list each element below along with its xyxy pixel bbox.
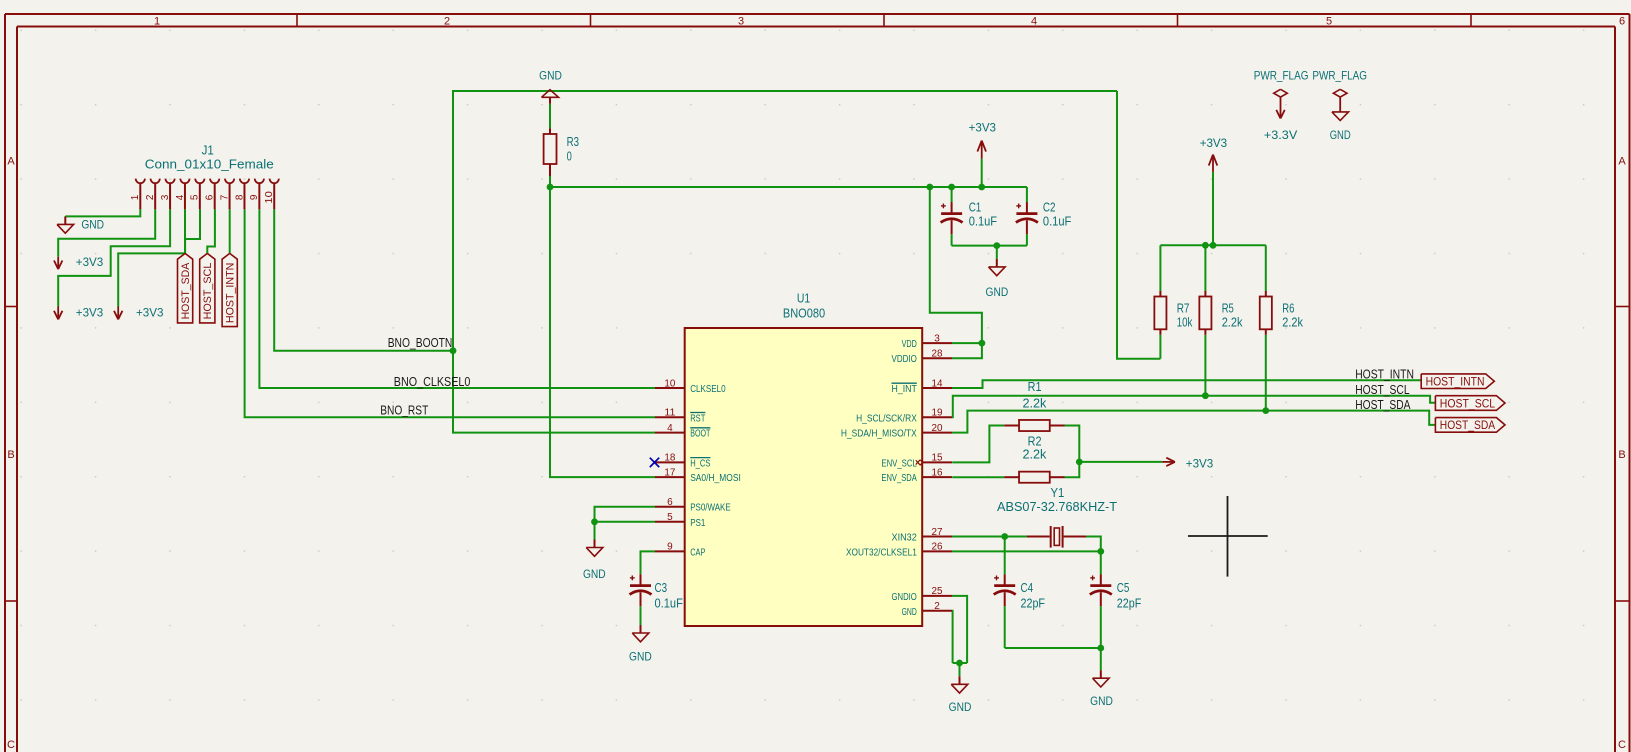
svg-text:19: 19 [932,408,943,419]
svg-text:+3V3: +3V3 [136,306,164,320]
svg-text:XIN32: XIN32 [892,533,918,544]
svg-text:GND: GND [583,567,606,581]
svg-text:HOST_SCL: HOST_SCL [202,263,214,320]
svg-text:R6: R6 [1282,300,1294,315]
svg-text:+3V3: +3V3 [969,121,997,135]
svg-text:GND: GND [986,285,1009,299]
svg-text:CLKSEL0: CLKSEL0 [690,384,726,395]
svg-text:BNO_RST: BNO_RST [380,404,428,418]
svg-text:+3.3V: +3.3V [1264,128,1297,142]
svg-text:10k: 10k [1177,314,1193,329]
svg-text:H_INT: H_INT [892,384,917,395]
svg-text:B: B [7,449,14,461]
svg-text:C3: C3 [655,580,668,595]
svg-text:BOOT: BOOT [690,429,710,440]
svg-text:C: C [7,739,15,751]
svg-text:GND: GND [1090,694,1113,708]
svg-text:0.1uF: 0.1uF [655,596,683,611]
svg-text:R1: R1 [1028,379,1042,394]
svg-text:1: 1 [130,194,141,200]
svg-text:3: 3 [738,15,744,27]
svg-text:2.2k: 2.2k [1222,314,1243,329]
svg-text:16: 16 [932,467,943,478]
svg-text:8: 8 [234,194,245,200]
svg-text:XOUT32/CLKSEL1: XOUT32/CLKSEL1 [846,547,917,558]
svg-text:9: 9 [249,194,260,200]
svg-text:GNDIO: GNDIO [892,592,917,603]
svg-text:R3: R3 [567,134,579,149]
svg-text:H_SCL/SCK/RX: H_SCL/SCK/RX [856,413,917,424]
svg-text:10: 10 [664,378,675,389]
svg-text:HOST_SDA: HOST_SDA [1440,418,1495,432]
svg-text:BNO080: BNO080 [783,307,825,321]
svg-text:J1: J1 [202,144,214,158]
svg-text:+3V3: +3V3 [1200,136,1228,150]
svg-text:H_SDA/H_MISO/TX: H_SDA/H_MISO/TX [841,429,917,440]
svg-text:2: 2 [934,601,940,612]
svg-text:H_CS: H_CS [690,458,710,469]
svg-text:HOST_INTN: HOST_INTN [225,263,237,323]
svg-text:Y1: Y1 [1051,485,1065,500]
svg-text:10: 10 [264,191,275,204]
svg-text:A: A [1618,155,1626,167]
svg-text:ABS07-32.768KHZ-T: ABS07-32.768KHZ-T [997,500,1117,514]
svg-text:6: 6 [205,194,216,200]
svg-text:B: B [1618,449,1625,461]
svg-text:PS0/WAKE: PS0/WAKE [690,503,731,514]
svg-text:HOST_SDA: HOST_SDA [1355,398,1411,412]
svg-text:25: 25 [932,586,943,597]
svg-text:C1: C1 [969,199,982,214]
svg-text:6: 6 [1619,15,1625,27]
svg-text:18: 18 [664,453,675,464]
svg-text:0: 0 [567,148,572,163]
svg-text:2: 2 [444,15,450,27]
svg-text:6: 6 [667,497,673,508]
svg-text:1: 1 [154,15,160,27]
svg-text:HOST_INTN: HOST_INTN [1426,375,1485,389]
svg-text:22pF: 22pF [1021,596,1046,611]
svg-text:C4: C4 [1021,580,1034,595]
svg-text:15: 15 [932,453,943,464]
svg-text:SA0/H_MOSI: SA0/H_MOSI [690,473,741,484]
svg-text:ENV_SCL: ENV_SCL [881,458,917,469]
svg-text:RST: RST [690,413,705,424]
svg-text:HOST_SDA: HOST_SDA [180,262,192,319]
svg-text:4: 4 [1031,15,1037,27]
svg-text:PWR_FLAG: PWR_FLAG [1312,69,1367,83]
svg-text:VDD: VDD [902,339,917,350]
svg-text:4: 4 [175,194,186,200]
svg-text:0.1uF: 0.1uF [1043,214,1071,229]
svg-text:3: 3 [160,194,171,200]
svg-text:11: 11 [664,408,675,419]
svg-text:GND: GND [902,607,917,618]
svg-text:HOST_SCL: HOST_SCL [1355,383,1409,397]
svg-text:5: 5 [667,512,673,523]
svg-text:HOST_INTN: HOST_INTN [1355,368,1414,382]
svg-text:14: 14 [932,378,943,389]
svg-text:U1: U1 [797,292,810,306]
svg-text:26: 26 [932,542,943,553]
svg-text:PS1: PS1 [690,518,706,529]
svg-text:2.2k: 2.2k [1282,314,1303,329]
svg-text:9: 9 [667,542,673,553]
svg-text:BNO_CLKSEL0: BNO_CLKSEL0 [394,375,471,389]
svg-text:GND: GND [81,218,104,232]
svg-text:5: 5 [190,194,201,200]
svg-text:GND: GND [539,69,562,83]
svg-text:2: 2 [145,194,156,200]
svg-text:A: A [7,155,15,167]
svg-text:0.1uF: 0.1uF [969,214,997,229]
svg-text:4: 4 [667,423,673,434]
svg-text:3: 3 [934,333,940,344]
svg-text:VDDIO: VDDIO [892,354,917,365]
svg-text:+3V3: +3V3 [76,255,104,269]
svg-text:+3V3: +3V3 [76,306,104,320]
svg-text:R5: R5 [1222,300,1234,315]
svg-text:R7: R7 [1177,300,1190,315]
svg-text:20: 20 [932,423,943,434]
svg-text:17: 17 [664,467,675,478]
svg-text:C5: C5 [1117,580,1130,595]
svg-text:GND: GND [629,650,652,664]
svg-text:7: 7 [219,194,230,200]
svg-text:Conn_01x10_Female: Conn_01x10_Female [145,158,274,172]
svg-text:GND: GND [949,700,972,714]
svg-text:HOST_SCL: HOST_SCL [1440,396,1496,410]
svg-text:CAP: CAP [690,547,705,558]
svg-text:GND: GND [1330,128,1351,142]
svg-text:28: 28 [932,349,943,360]
svg-text:2.2k: 2.2k [1022,395,1046,410]
svg-text:2.2k: 2.2k [1022,447,1046,462]
svg-text:C: C [1618,739,1626,751]
svg-text:22pF: 22pF [1117,596,1142,611]
svg-text:C2: C2 [1043,199,1056,214]
svg-text:ENV_SDA: ENV_SDA [881,473,917,484]
svg-text:+3V3: +3V3 [1186,456,1214,470]
svg-text:27: 27 [932,527,943,538]
svg-text:BNO_BOOTN: BNO_BOOTN [388,336,453,350]
svg-text:PWR_FLAG: PWR_FLAG [1254,69,1309,83]
svg-text:5: 5 [1326,15,1332,27]
